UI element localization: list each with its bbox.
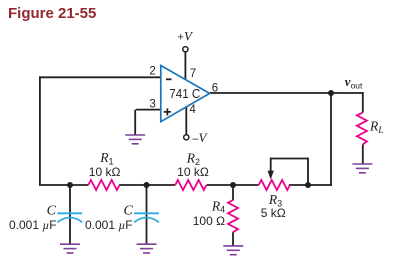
svg-text:RL: RL (369, 119, 384, 136)
svg-text:C: C (47, 203, 57, 218)
label R4 value 100 Ohm (193, 214, 225, 228)
label C right value 0.001 uF (85, 218, 133, 232)
svg-text:6: 6 (212, 82, 218, 94)
capacitor C right (134, 213, 159, 222)
label R1 (99, 150, 113, 166)
wire bottom node segment A (39, 184, 88, 186)
wire pin4 supply lead (185, 106, 187, 135)
junction node capacitor right (144, 182, 150, 188)
svg-text:Figure 21-55: Figure 21-55 (8, 5, 96, 22)
svg-text:0.001 µF: 0.001 µF (9, 218, 57, 232)
svg-text:10 kΩ: 10 kΩ (177, 165, 209, 179)
svg-text:–V: –V (192, 130, 208, 145)
svg-text:vout: vout (345, 74, 363, 91)
op-amp U1 741C triangle (161, 66, 210, 122)
svg-text:5 kΩ: 5 kΩ (261, 206, 286, 220)
svg-text:741 C: 741 C (169, 86, 200, 101)
wire capacitor C right lead (146, 185, 148, 244)
svg-text:10 kΩ: 10 kΩ (89, 165, 121, 179)
wire bottom node segment D (289, 184, 332, 186)
op-amp label 741 C (169, 86, 200, 101)
wire R4 bottom lead (232, 232, 234, 246)
wire potentiometer wiper loop (271, 159, 308, 186)
pin 2 label (149, 65, 155, 77)
label R3 (268, 192, 282, 208)
svg-text:2: 2 (149, 65, 155, 77)
junction node capacitor left (67, 182, 73, 188)
wire capacitor C left lead (69, 185, 71, 244)
label R4 (211, 198, 225, 214)
+V label (178, 29, 194, 44)
wire potentiometer wiper arrow shaft (270, 158, 272, 173)
wire pin2 input horizontal (39, 76, 161, 78)
svg-text:4: 4 (189, 104, 196, 116)
ground R4 (223, 246, 243, 255)
ground pin3 (125, 135, 145, 144)
svg-text:R4: R4 (211, 198, 225, 214)
label C left value 0.001 uF (9, 218, 57, 232)
resistor R1 (88, 180, 119, 190)
pin 7 label (190, 68, 196, 80)
label R2 value 10 kOhm (177, 165, 209, 179)
label RL (369, 119, 384, 136)
ground capacitor C left (60, 244, 80, 253)
junction node R2 R3 R4 (230, 182, 236, 188)
svg-text:100 Ω: 100 Ω (193, 214, 225, 228)
-V supply terminal circle (184, 135, 189, 140)
wire RL bottom lead (362, 145, 364, 165)
label C right (123, 203, 133, 218)
wire left feedback vertical (39, 76, 41, 185)
svg-text:3: 3 (149, 98, 155, 110)
pin 4 label (189, 104, 196, 116)
svg-text:C: C (123, 203, 133, 218)
wire R4 top lead (232, 185, 234, 201)
junction node vout (328, 90, 334, 96)
label R3 value 5 kOhm (261, 206, 286, 220)
junction node R3 wiper (305, 182, 311, 188)
resistor R3 potentiometer (259, 180, 290, 190)
wire bottom node segment C (207, 184, 259, 186)
wire pin7 supply lead (184, 51, 186, 80)
capacitor C left (57, 213, 82, 222)
wire right feedback vertical (330, 93, 332, 186)
pin 6 label (212, 82, 218, 94)
ground RL (352, 164, 372, 173)
svg-text:+V: +V (178, 29, 194, 44)
-V label (192, 130, 208, 145)
svg-text:7: 7 (190, 68, 196, 80)
figure title (8, 5, 96, 22)
wire pin3 input (135, 110, 161, 135)
svg-text:0.001 µF: 0.001 µF (85, 218, 133, 232)
pin 3 label (149, 98, 155, 110)
label R1 value 10 kOhm (89, 165, 121, 179)
label C left (47, 203, 57, 218)
resistor RL load (357, 113, 367, 145)
label R2 (186, 151, 200, 167)
op-amp non-inverting input plus sign (164, 108, 171, 115)
+V supply terminal circle (183, 47, 188, 52)
potentiometer wiper arrowhead (268, 171, 274, 180)
resistor R2 (175, 180, 206, 190)
node vout label (345, 74, 363, 91)
ground capacitor C right (137, 244, 157, 253)
wire output from pin 6 (210, 92, 364, 94)
wire bottom node segment B (119, 184, 175, 186)
op-amp inverting input minus sign (166, 78, 172, 80)
wire RL top lead (362, 92, 364, 112)
resistor R4 (228, 200, 238, 232)
